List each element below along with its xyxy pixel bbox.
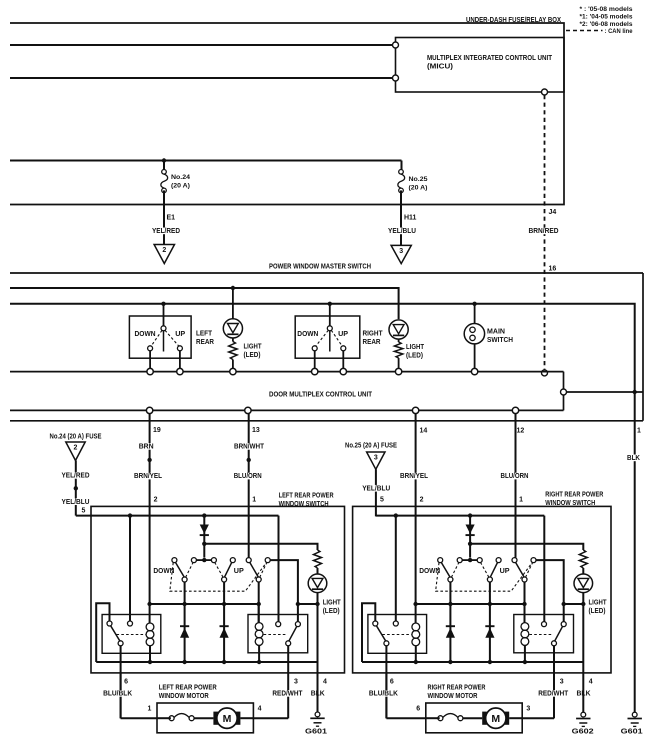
svg-text:BRN/WHT: BRN/WHT — [234, 444, 265, 451]
svg-text:REAR: REAR — [363, 337, 382, 346]
svg-text:BLU/BLK: BLU/BLK — [369, 691, 398, 698]
svg-text:BLU/ORN: BLU/ORN — [501, 473, 529, 480]
svg-text:UNDER-DASH FUSE/RELAY BOX: UNDER-DASH FUSE/RELAY BOX — [466, 15, 561, 24]
svg-text:12: 12 — [517, 428, 525, 435]
svg-text:(LED): (LED) — [589, 606, 607, 615]
svg-text:UP: UP — [234, 566, 244, 575]
svg-text:UP: UP — [175, 329, 185, 338]
svg-text:SWITCH: SWITCH — [487, 335, 513, 344]
svg-text:(LED): (LED) — [406, 351, 424, 360]
svg-text:RED/WHT: RED/WHT — [272, 691, 303, 698]
svg-text:1: 1 — [148, 706, 152, 713]
svg-text:1: 1 — [252, 497, 256, 504]
svg-text:H11: H11 — [404, 215, 417, 222]
svg-text:BRN: BRN — [139, 444, 154, 451]
svg-text:(MICU): (MICU) — [427, 62, 454, 71]
svg-text:No.25 (20 A) FUSE: No.25 (20 A) FUSE — [345, 443, 397, 450]
svg-text:3: 3 — [294, 679, 298, 686]
svg-text:UP: UP — [500, 566, 510, 575]
svg-text:M: M — [223, 713, 232, 725]
svg-text:4: 4 — [323, 679, 327, 686]
svg-text:YEL/BLU: YEL/BLU — [388, 228, 416, 235]
svg-text:1: 1 — [637, 428, 641, 435]
svg-text:YEL/BLU: YEL/BLU — [62, 499, 90, 506]
svg-text:3: 3 — [526, 706, 530, 713]
svg-text:19: 19 — [153, 427, 161, 434]
svg-text:(LED): (LED) — [323, 606, 341, 615]
svg-text:5: 5 — [380, 497, 384, 504]
svg-text:J4: J4 — [549, 209, 557, 216]
svg-text:*2: '06-08 models: *2: '06-08 models — [580, 21, 633, 28]
svg-text:2: 2 — [162, 247, 166, 254]
svg-text:6: 6 — [416, 706, 420, 713]
svg-text:BLU/ORN: BLU/ORN — [234, 473, 262, 480]
svg-text:RED/WHT: RED/WHT — [538, 691, 569, 698]
svg-text:13: 13 — [252, 427, 260, 434]
svg-text:3: 3 — [399, 248, 403, 255]
svg-text:1: 1 — [519, 497, 523, 504]
svg-text:No.24 (20 A) FUSE: No.24 (20 A) FUSE — [50, 434, 102, 441]
svg-text:YEL/BLU: YEL/BLU — [362, 485, 390, 492]
svg-text:REAR: REAR — [196, 337, 215, 346]
svg-text:3: 3 — [374, 455, 378, 462]
svg-text:2: 2 — [420, 497, 424, 504]
svg-text:(LED): (LED) — [244, 350, 262, 359]
svg-text:2: 2 — [154, 497, 158, 504]
svg-text:BRN/YEL: BRN/YEL — [134, 473, 163, 480]
svg-text:POWER WINDOW MASTER SWITCH: POWER WINDOW MASTER SWITCH — [269, 262, 371, 271]
svg-text:3: 3 — [560, 679, 564, 686]
svg-text:E1: E1 — [167, 215, 176, 222]
svg-text:BRN/RED: BRN/RED — [529, 228, 559, 235]
svg-text:G602: G602 — [572, 727, 594, 736]
svg-text:YEL/RED: YEL/RED — [62, 473, 90, 480]
svg-text:4: 4 — [589, 679, 593, 686]
svg-text:BLK: BLK — [627, 455, 640, 462]
svg-text:(20 A): (20 A) — [409, 185, 428, 192]
svg-text:No.24: No.24 — [171, 174, 190, 181]
svg-text:DOWN: DOWN — [135, 329, 156, 338]
svg-text:4: 4 — [258, 706, 262, 713]
svg-text:UP: UP — [338, 329, 348, 338]
svg-text:WINDOW MOTOR: WINDOW MOTOR — [159, 691, 210, 700]
svg-text:*1: '04-05 models: *1: '04-05 models — [580, 14, 633, 21]
svg-text:BLU/BLK: BLU/BLK — [103, 691, 132, 698]
svg-text:G601: G601 — [621, 727, 643, 736]
svg-text:WINDOW SWITCH: WINDOW SWITCH — [545, 498, 595, 507]
svg-text:DOOR MULTIPLEX CONTROL UNIT: DOOR MULTIPLEX CONTROL UNIT — [269, 390, 372, 399]
svg-text:DOWN: DOWN — [419, 566, 440, 575]
svg-text:M: M — [491, 713, 500, 725]
svg-text:: CAN line: : CAN line — [605, 28, 633, 35]
svg-text:5: 5 — [82, 508, 86, 515]
svg-text:(20 A): (20 A) — [171, 183, 190, 190]
svg-text:6: 6 — [124, 679, 128, 686]
svg-text:DOWN: DOWN — [153, 566, 174, 575]
svg-text:14: 14 — [420, 428, 428, 435]
svg-text:DOWN: DOWN — [297, 329, 318, 338]
svg-text:6: 6 — [390, 679, 394, 686]
svg-text:WINDOW MOTOR: WINDOW MOTOR — [428, 691, 479, 700]
svg-text:2: 2 — [74, 445, 78, 452]
svg-text:* : '05-08 models: * : '05-08 models — [580, 6, 633, 13]
svg-text:BRN/YEL: BRN/YEL — [400, 473, 429, 480]
svg-text:No.25: No.25 — [409, 176, 428, 183]
svg-text:YEL/RED: YEL/RED — [152, 228, 180, 235]
svg-text:16: 16 — [549, 266, 557, 273]
svg-text:G601: G601 — [305, 727, 327, 736]
